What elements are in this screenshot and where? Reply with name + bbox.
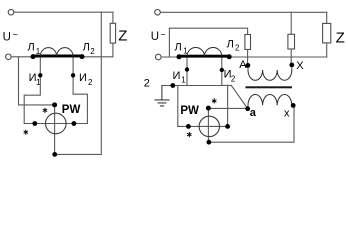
node dot current right right-circuit	[225, 124, 230, 129]
node dot voltage tap	[52, 102, 57, 107]
svg-text:2: 2	[144, 77, 150, 89]
VT core	[246, 86, 293, 88]
wire I1 drop right	[186, 57, 188, 86]
wire voltage coil vertical	[54, 105, 56, 154]
svg-text:~: ~	[13, 30, 18, 40]
wattmeter PW1 circle	[46, 113, 67, 134]
wire Z1 lower stub	[101, 43, 113, 57]
resistor Z2	[323, 23, 331, 43]
terminal U~ top-left	[8, 9, 14, 15]
svg-text:Z: Z	[118, 27, 127, 44]
svg-text:И: И	[173, 70, 181, 82]
node dot I2 right	[220, 68, 224, 72]
node dot L2 right	[227, 54, 232, 59]
node dot current coil right	[72, 121, 77, 126]
node dot L2	[80, 54, 85, 59]
CT secondary winding arcs left	[40, 48, 73, 56]
svg-text:Л: Л	[175, 41, 182, 53]
svg-text:2: 2	[231, 74, 236, 83]
node dot current left right-circuit	[186, 124, 191, 129]
svg-text:X: X	[296, 60, 304, 72]
wire bottom return	[55, 153, 102, 155]
terminal U~ bottom right circuit	[156, 54, 162, 60]
ground symbol	[155, 86, 169, 106]
wire Z2 lower stub	[326, 43, 328, 57]
svg-text:A: A	[239, 59, 247, 71]
node dot voltage bottom right	[207, 140, 212, 145]
fuse F1	[245, 35, 251, 50]
VT winding upper stubs	[248, 65, 292, 70]
svg-text:~: ~	[161, 30, 166, 40]
wire ground node horizontal	[162, 85, 222, 87]
wire fuse F2 column	[290, 12, 292, 34]
node dot L1 right	[177, 54, 182, 59]
node dot I1	[38, 73, 42, 77]
primary bar L1-L2 left	[33, 55, 82, 58]
wire Z1 upper stub	[112, 12, 114, 23]
asterisk voltage coil right	[212, 98, 216, 103]
wire left lead riser	[177, 86, 179, 127]
wire main line right circuit	[161, 56, 327, 58]
wire Z2 upper stub	[326, 12, 328, 23]
wire I2 drop and corner right	[222, 57, 232, 85]
CT secondary winding arcs right	[187, 48, 222, 57]
node dot L1	[31, 54, 36, 59]
wire right vertical (top wire to bottom wire)	[100, 12, 102, 154]
node dot ground junction	[170, 83, 175, 88]
svg-text:2: 2	[88, 78, 93, 87]
wire I2 to current coil right lead	[227, 85, 229, 126]
wire top left horizontal	[14, 11, 113, 13]
svg-text:U: U	[3, 31, 11, 43]
wire I2 drop and step	[73, 57, 87, 124]
svg-text:2: 2	[90, 47, 95, 56]
wire main line left circuit	[11, 56, 101, 58]
node dot a	[245, 106, 250, 111]
node dot I1 right	[185, 67, 189, 71]
wire bottom return right	[209, 105, 294, 142]
wire voltage branch tap	[19, 57, 53, 105]
wire VT primary feeder (wire2)	[169, 28, 247, 57]
VT primary winding arcs	[248, 70, 292, 80]
svg-text:Л: Л	[83, 42, 90, 54]
svg-text:Л: Л	[28, 42, 35, 54]
VT secondary winding arcs	[248, 95, 292, 106]
wire diagonal to a	[231, 86, 247, 109]
asterisk current coil right	[187, 132, 191, 137]
terminal U~ bottom-left	[6, 54, 12, 60]
svg-text:1: 1	[181, 75, 186, 84]
wire F2 to X	[290, 49, 292, 65]
asterisk voltage coil left	[43, 108, 47, 113]
svg-text:Z: Z	[336, 29, 345, 46]
node dot I2	[71, 73, 75, 77]
svg-text:1: 1	[36, 78, 41, 87]
wire voltage coil wire to a	[208, 107, 247, 109]
node dot A	[246, 63, 251, 68]
svg-text:x: x	[284, 107, 290, 119]
wattmeter PW2 circle	[199, 116, 219, 136]
wire I1 drop and step	[24, 57, 40, 124]
node dot x	[291, 103, 296, 108]
node dot voltage tap right	[206, 106, 211, 111]
wire current coil horizontal	[24, 123, 87, 125]
resistor Z1	[110, 23, 115, 43]
svg-text:1: 1	[183, 46, 188, 55]
node dot X	[289, 63, 294, 68]
svg-text:Л: Л	[227, 39, 234, 51]
svg-text:PW: PW	[62, 104, 81, 116]
svg-text:U: U	[151, 31, 159, 43]
wire current coil horizontal right	[178, 125, 228, 127]
wire voltage coil vertical right	[207, 108, 209, 142]
primary bar L1-L2 right	[179, 55, 229, 58]
svg-text:a: a	[250, 107, 257, 119]
node dot bottom	[52, 152, 57, 157]
svg-text:2: 2	[235, 44, 240, 53]
node dot current coil left	[32, 121, 37, 126]
terminal U~ top right circuit	[155, 10, 161, 16]
asterisk current coil left	[24, 130, 28, 135]
wire F1 to A	[247, 50, 249, 66]
svg-text:И: И	[79, 72, 87, 84]
VT secondary stubs	[248, 105, 294, 108]
wire top right horizontal	[160, 11, 326, 13]
fuse F2	[288, 34, 295, 49]
svg-text:PW: PW	[180, 105, 199, 117]
svg-text:1: 1	[36, 47, 41, 56]
